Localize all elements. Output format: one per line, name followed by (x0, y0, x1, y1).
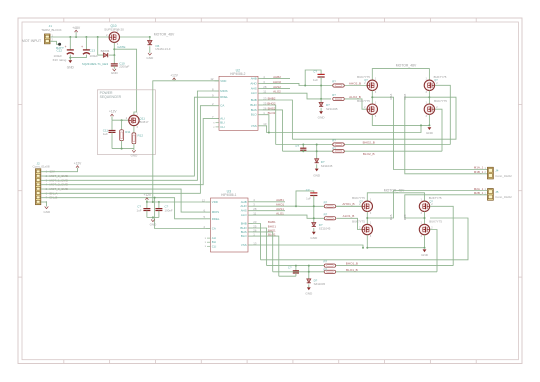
svg-text:ALO: ALO (251, 91, 258, 95)
svg-text:GND: GND (421, 253, 429, 257)
U3 right pin 1 BLO (248, 235, 253, 237)
svg-text:C?: C? (313, 69, 317, 73)
svg-text:GND: GND (111, 71, 119, 75)
svg-text:AHS: AHS (251, 86, 257, 90)
transistor Q7 bridge B high-right (419, 201, 429, 211)
svg-text:AHO: AHO (250, 81, 257, 85)
wire BHS1_B sense row (261, 218, 469, 260)
wire motor output M1A (372, 97, 487, 169)
svg-text:MOTOR_48V: MOTOR_48V (154, 33, 175, 37)
U2 right pin 11 ALO (258, 92, 263, 94)
wire MOT_3_CMD to U3 (45, 189, 207, 212)
svg-text:HIP4086-2: HIP4086-2 (230, 72, 245, 76)
junction AHO1 row (313, 205, 315, 207)
frame row ticks left/right (18, 103, 22, 105)
wire U2 BHO2 down (263, 105, 276, 145)
svg-text:VSS: VSS (241, 243, 247, 247)
svg-text:AHB: AHB (251, 76, 257, 80)
wire U2 AHO2 row jog to gate row (263, 83, 368, 85)
svg-text:Conn_01x08: Conn_01x08 (33, 165, 50, 169)
capacitor C7 decoupling (146, 202, 148, 208)
svg-text:M2A: M2A (389, 214, 393, 220)
wire motor output M1B (405, 97, 488, 174)
resistor R24 gate A high motor B (324, 205, 336, 208)
svg-text:VSS: VSS (251, 124, 257, 128)
ground flag bridge B (423, 249, 427, 252)
junction on rail at zener branch (97, 36, 99, 38)
svg-text:BUK7Y75: BUK7Y75 (434, 99, 447, 103)
transistor Q3 bridge A high-right (424, 80, 434, 90)
U2 right pin 26 BHS (258, 109, 263, 111)
svg-text:M1A: M1A (389, 94, 393, 100)
resistor R23 gate B low (333, 150, 345, 153)
wire U3 AHO1 row to gate row (253, 205, 362, 207)
wire +48V rail to Q10 drain side (121, 36, 150, 38)
resistor R12 (132, 133, 136, 144)
wire phase B left (366, 212, 368, 225)
svg-text:US1M-13-F: US1M-13-F (155, 47, 171, 51)
J2 pin 2 stub (41, 175, 45, 177)
svg-text:GND: GND (67, 66, 75, 70)
svg-text:SEQUENCER: SEQUENCER (100, 95, 122, 99)
wire BHO1_B riser to Q7 gate (430, 206, 453, 265)
ground flag gate clamp B motor B (307, 287, 311, 290)
svg-text:R?: R? (324, 260, 328, 264)
resistor R20 gate A high (333, 84, 345, 87)
svg-text:R?: R? (324, 212, 328, 216)
svg-text:GND: GND (131, 153, 139, 157)
power flag +12V at U2 VDD (173, 78, 175, 81)
svg-text:MDIS: MDIS (212, 210, 219, 214)
svg-text:AHO1_B: AHO1_B (342, 202, 354, 206)
svg-text:BHS: BHS (251, 108, 257, 112)
wire BLO1_B riser to Q8 gate (430, 230, 437, 272)
capacitor C13 bulk (85, 37, 87, 50)
wire J1 pin1 to +48V rail (50, 36, 108, 38)
svg-text:J4: J4 (495, 169, 499, 173)
svg-text:C12: C12 (56, 48, 62, 52)
capacitor C8 decoupling (158, 202, 160, 208)
svg-text:C?: C? (295, 144, 299, 148)
svg-text:M1B_1: M1B_1 (474, 170, 484, 174)
J2 pin 5 stub (41, 188, 45, 190)
svg-text:63V rating: 63V rating (53, 58, 67, 62)
ground flag at J2 pin8 (45, 202, 47, 206)
svg-text:MDIS: MDIS (220, 89, 227, 93)
U3 right pin 11 ALO (248, 214, 253, 216)
svg-text:GND: GND (310, 236, 318, 240)
U2 right pin 4 AHB (258, 77, 263, 79)
svg-text:GND: GND (146, 56, 154, 60)
svg-text:Q?: Q? (429, 199, 433, 203)
U3 right pin 26 BHS (248, 231, 253, 233)
U2 right pin 25 BHO (258, 104, 263, 106)
svg-text:BUK7Y75: BUK7Y75 (357, 99, 370, 103)
wire gate to sequencer collector (114, 49, 136, 115)
U3 pin 13 VSS (248, 244, 253, 246)
svg-text:1uF: 1uF (103, 132, 108, 136)
op-amp U3 gate driver HIP4086 (motor B) (211, 198, 249, 252)
U2 right pin 23 BHB (258, 99, 263, 101)
svg-text:+: + (65, 45, 67, 49)
wire EN_B to U3 (45, 198, 207, 219)
U3 right pin 23 BHB (248, 223, 253, 225)
svg-text:GND: GND (150, 222, 158, 226)
J2 pin 6 stub (41, 192, 45, 194)
wire BHS2_B sense row (292, 97, 456, 139)
wire U2 ALO2 row jog to low gate row (263, 93, 332, 99)
wire BHO1_B row (267, 265, 454, 267)
capacitor C14 bootstrap A (318, 73, 325, 75)
wire BLO2_B riser to Q4 gate (435, 109, 442, 151)
ground flag below D6 (148, 53, 152, 55)
wire BHO2_B row (276, 144, 451, 146)
power flag +12V at J2 pin1 (45, 168, 78, 172)
wire Q11 emitter to R12 (133, 126, 135, 133)
svg-text:BHB: BHB (251, 98, 257, 102)
junction on rail at D6 (149, 36, 151, 38)
ground flag gate clamp B (315, 169, 319, 172)
connector J1 power input (45, 34, 51, 44)
svg-text:SZ11045: SZ11045 (319, 227, 331, 231)
svg-text:RDEL: RDEL (220, 95, 228, 99)
zener D21 gate clamp B (316, 145, 318, 159)
svg-text:2200pF: 2200pF (119, 65, 129, 69)
sequencer bottom rail (112, 148, 134, 150)
svg-text:MOTOR_48V: MOTOR_48V (396, 63, 417, 67)
svg-text:100uF: 100uF (90, 54, 99, 58)
capacitor C16 bootstrap A motor B (310, 192, 317, 194)
svg-text:AHO: AHO (240, 204, 247, 208)
ground flag gate clamp A (319, 111, 323, 114)
wire U2 AHS2 row (263, 87, 291, 89)
J2 pin 8 stub (41, 201, 45, 203)
U3 right pin 3 AHO (248, 205, 253, 207)
wire U3 BHO1 down (253, 228, 267, 266)
wire U2 BHS2 down (263, 110, 283, 151)
svg-text:BLO: BLO (251, 113, 258, 117)
svg-text:R12: R12 (138, 133, 144, 137)
op-amp U2 gate driver HIP4086 (motor A) (219, 76, 258, 130)
ground flag below C12 (68, 60, 72, 63)
ground flag U3 decoupling (152, 217, 154, 219)
svg-text:BHB: BHB (241, 222, 247, 226)
svg-text:100nF: 100nF (165, 208, 173, 212)
transistor Q1 bridge A high-left (367, 80, 377, 90)
svg-text:BHO2_B: BHO2_B (363, 140, 375, 144)
wire MOT_2_CMD to U2 (45, 119, 220, 185)
U3 left pin 6 MDIS (206, 211, 211, 213)
U3 right pin 28 AHS (248, 210, 253, 212)
wire bridge A ground rail (372, 115, 429, 126)
wire U2 AHB2 row (263, 77, 291, 79)
svg-text:SZ11045: SZ11045 (321, 164, 333, 168)
svg-text:Q?: Q? (359, 199, 363, 203)
zener D10 gate clamp (98, 37, 103, 55)
svg-text:+12V: +12V (170, 74, 178, 78)
U3 left pin 2 CA (206, 228, 211, 230)
svg-text:GND: GND (313, 173, 321, 177)
svg-text:C?: C? (306, 188, 310, 192)
svg-text:Q?: Q? (364, 78, 368, 82)
svg-text:SZ11045: SZ11045 (326, 107, 338, 111)
svg-text:C13: C13 (90, 48, 96, 52)
svg-text:CA: CA (212, 227, 216, 231)
svg-text:BLO2_B: BLO2_B (363, 152, 375, 156)
transistor Q8 bridge B low-right (419, 224, 429, 234)
resistor R21 gate A low (333, 97, 345, 100)
capacitor C15 bootstrap B (302, 145, 304, 149)
svg-text:GND: GND (318, 115, 326, 119)
zener D22 gate clamp A motor B (312, 222, 316, 226)
wire decoupling ground rail (147, 216, 159, 218)
wire U2 BLO2 stub (263, 115, 269, 133)
power flag +48V (75, 32, 77, 37)
svg-text:Q?: Q? (434, 78, 438, 82)
U3 unused input stubs (207, 237, 211, 239)
wire +12V rail to U3 VDD (147, 201, 206, 203)
svg-text:GATE: GATE (117, 45, 125, 49)
U2 left pin 8 MDIS (215, 90, 220, 92)
wire phase B right (424, 212, 426, 225)
svg-text:VDD: VDD (212, 200, 218, 204)
resistor R26 gate B high motor B (324, 264, 336, 267)
wire phase A right (428, 91, 430, 105)
junction on rail at +48V flag (75, 36, 77, 38)
wire BHO2_B riser to Q3 gate (435, 85, 451, 144)
svg-text:ALO: ALO (241, 213, 248, 217)
svg-text:M2B: M2B (403, 214, 407, 220)
svg-text:1uF: 1uF (313, 78, 318, 82)
junction on rail at C13 (85, 36, 87, 38)
svg-text:RDEL: RDEL (212, 217, 220, 221)
capacitor C10 (113, 55, 115, 64)
wire U2 VDD to +12V rail (153, 81, 219, 202)
wire U3 BLO1 down (253, 236, 279, 276)
J2 pin 1 stub (41, 171, 45, 173)
transistor Q2 bridge A low-left (367, 104, 377, 114)
svg-text:+48V: +48V (72, 26, 81, 30)
U3 left pin 12 VDD (206, 201, 211, 203)
svg-text:1uF: 1uF (306, 197, 311, 201)
wire motor output M2A (367, 191, 487, 219)
wire U3 BHB1 down to sense row (253, 224, 261, 260)
svg-text:MOT INPUT: MOT INPUT (22, 39, 42, 43)
svg-text:HIP4086-1: HIP4086-1 (221, 193, 236, 197)
svg-text:BHB1: BHB1 (268, 220, 276, 224)
J2 pin 4 stub (41, 184, 45, 186)
junction AHO row (320, 85, 322, 87)
U2 pin 13 VSS (258, 125, 263, 127)
svg-text:CLI: CLI (220, 125, 225, 129)
svg-text:R?: R? (324, 267, 328, 271)
wire R24 to Q5 gate (336, 205, 362, 207)
wire bootstrap hat to C16 (296, 191, 314, 206)
transistor Q11 (129, 115, 139, 125)
connector J4 motor A output (488, 167, 494, 179)
wire bridge B ground rail (367, 235, 424, 248)
svg-text:J5: J5 (495, 190, 499, 194)
resistor R22 gate B high (333, 143, 345, 146)
wire R25 to Q6 gate (336, 218, 362, 229)
junction gate node (113, 48, 115, 50)
wire U2 VSS to bridge ground rail (263, 125, 422, 132)
J2 pin 3 stub (41, 179, 45, 181)
U2 right pin 28 AHS (258, 87, 263, 89)
svg-text:AHB: AHB (241, 200, 247, 204)
svg-text:CLI: CLI (212, 244, 217, 248)
frame column ticks top/bottom (63, 18, 65, 22)
svg-text:ALO1_B: ALO1_B (343, 214, 355, 218)
wire U2 BHB2 to sense row (263, 100, 293, 139)
wire to U3 pin CA (155, 198, 206, 229)
power sequencer outline box (97, 90, 155, 155)
U3 right pin 4 AHB (248, 201, 253, 203)
U2 left pin 2 CA (215, 105, 220, 107)
wire U3 AHS1 row (253, 210, 286, 212)
wire U3 ALO1 row jog to low gate row (253, 215, 325, 218)
svg-text:+12V: +12V (109, 110, 117, 114)
svg-text:SZ11045: SZ11045 (314, 282, 326, 286)
svg-text:R?: R? (332, 80, 336, 84)
ground flag gate clamp A motor B (312, 232, 316, 235)
wire J1 pin2 stub (50, 41, 60, 44)
ground flag bridge A (428, 127, 432, 130)
resistor R25 gate A low motor B (324, 217, 336, 220)
wire Q10 gate node (113, 43, 115, 55)
junction ALO row (320, 98, 322, 100)
wire bridge A top rail (372, 69, 429, 81)
zener D23 gate clamp B motor B (308, 266, 310, 279)
wire MOT_0_CMD to U2 (45, 97, 215, 176)
wire MOT_1_CMD to U2 (45, 91, 215, 180)
svg-text:BC817: BC817 (139, 120, 149, 124)
junction C12 C13 common (69, 57, 71, 59)
ground flag below C10 (113, 69, 117, 71)
svg-text:BZX84: BZX84 (101, 49, 110, 53)
U3 right pin 25 BHO (248, 227, 253, 229)
svg-text:+12V: +12V (74, 161, 82, 165)
svg-text:1uF: 1uF (137, 208, 142, 212)
svg-text:R?: R? (332, 139, 336, 143)
transistor Q5 bridge B high-left (362, 201, 372, 211)
svg-text:VDD: VDD (220, 79, 226, 83)
svg-text:TERM_BLOCK: TERM_BLOCK (41, 28, 61, 32)
capacitor C11 (111, 120, 113, 130)
svg-text:R11: R11 (125, 130, 131, 134)
connector J5 motor B output (488, 189, 494, 201)
U2 unused input stubs (216, 122, 220, 124)
svg-text:R?: R? (332, 93, 336, 97)
J2 pin 7 stub (41, 197, 45, 199)
svg-text:R?: R? (332, 146, 336, 150)
svg-text:+12V: +12V (144, 193, 152, 197)
svg-text:C?: C? (288, 265, 292, 269)
transistor Q10 P-FET (109, 32, 119, 42)
wire bridge B top rail (367, 193, 424, 201)
svg-text:12: 12 (210, 77, 214, 81)
wire BLO2_B row (283, 150, 443, 152)
U3 left pin 5 RDEL (206, 218, 211, 220)
svg-text:BUK7Y75: BUK7Y75 (352, 220, 365, 224)
diode D6 freewheel (149, 37, 151, 40)
svg-text:AHO2_B: AHO2_B (349, 82, 361, 86)
zener D20 gate clamp A (320, 99, 322, 102)
junction black dot BATT (58, 43, 61, 46)
wire BHB1 row to bootstrap cap (279, 275, 296, 277)
wire EN_A to U2 (45, 106, 215, 194)
transistor Q6 bridge B low-left (362, 224, 372, 234)
U2 right pin 3 AHO (258, 82, 263, 84)
U2 left pin 12 VDD (215, 80, 220, 82)
svg-text:CA: CA (220, 104, 224, 108)
wire motor output M2B (405, 195, 488, 218)
junction base rail at R11 (121, 119, 123, 121)
svg-text:SQ2310ES-T1_GE3: SQ2310ES-T1_GE3 (82, 62, 109, 66)
transistor Q4 bridge A low-right (424, 104, 434, 114)
svg-text:M1B: M1B (403, 94, 407, 100)
svg-text:AHS: AHS (241, 209, 247, 213)
wire R21 to Q2 gate (345, 99, 367, 109)
wire bootstrap hat to C14 (305, 70, 321, 86)
svg-text:Conn_01x02: Conn_01x02 (495, 174, 512, 178)
junction on rail at C12 (69, 36, 71, 38)
svg-text:Conn_01x02: Conn_01x02 (495, 195, 512, 199)
svg-text:BLO1_B: BLO1_B (346, 268, 358, 272)
junction ALO1 row (313, 217, 315, 219)
svg-text:GND: GND (43, 210, 51, 214)
svg-text:R?: R? (324, 200, 328, 204)
svg-text:GND: GND (426, 131, 434, 135)
wire BLO1_B row (273, 271, 437, 273)
svg-text:BHO1_B: BHO1_B (346, 262, 358, 266)
U2 right pin 1 BLO (258, 114, 263, 116)
wire phase A left (371, 91, 373, 105)
capacitor C17 bootstrap B motor B (295, 266, 297, 271)
wire U3 BHS1 down (253, 232, 273, 272)
svg-text:BUK7Y75: BUK7Y75 (429, 220, 442, 224)
ground flag sequencer (133, 149, 135, 151)
wire U3 AHB1 row (253, 201, 286, 203)
wire U3 VSS to bridge B ground rail (253, 245, 364, 248)
resistor R11 (121, 120, 123, 130)
U2 left pin 9 RDEL (215, 96, 220, 98)
svg-text:BHO: BHO (250, 103, 257, 107)
wire +12V to Q11 base rail (112, 119, 129, 121)
svg-text:GND: GND (305, 292, 313, 296)
svg-text:+: + (81, 45, 83, 49)
svg-text:BLO: BLO (241, 234, 248, 238)
connector J2 control input (36, 169, 41, 205)
resistor R27 gate B low motor B (324, 270, 336, 273)
capacitor C12 bulk (69, 37, 71, 50)
svg-text:SUP53P06-20: SUP53P06-20 (104, 27, 124, 31)
